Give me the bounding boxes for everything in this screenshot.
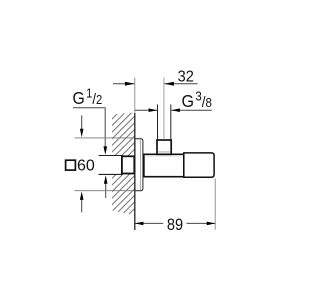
dim 60: top arrow <box>81 115 83 130</box>
pipe G3/8 stub left line <box>157 105 159 141</box>
bushing: threaded wall connector <box>122 156 134 173</box>
nut shadow <box>158 151 171 153</box>
dimension 89: line segments <box>135 222 163 224</box>
dim 60: bottom extension line <box>75 190 135 192</box>
G1/2 up arrow below pipe <box>105 196 107 198</box>
leader G1/2: vertical with down arrow <box>104 108 106 148</box>
escutcheon plate <box>135 139 143 191</box>
dimension 32: right segment and arrow <box>164 83 197 85</box>
valve body <box>144 154 184 176</box>
extension line for 89 dim <box>214 179 216 230</box>
nut: top connection <box>157 140 171 154</box>
wall hatch <box>112 113 135 216</box>
dimension G3/8: right arrow and leader <box>172 109 212 111</box>
dimension 89: left arrow <box>135 222 144 226</box>
pipe G3/8 stub right line <box>170 105 172 141</box>
svg-text:89: 89 <box>167 216 183 234</box>
pipe G1/2 inlet top line <box>99 155 123 157</box>
centerline extension for 32 dim <box>163 78 165 140</box>
outlet <box>184 153 214 177</box>
label G3/8 <box>182 89 213 111</box>
label G1/2 <box>73 86 103 108</box>
pipe G1/2 inlet bottom line <box>99 173 123 175</box>
svg-text:32: 32 <box>178 69 194 86</box>
dimension 32: left segment and arrow <box>113 83 134 85</box>
escutcheon highlight line <box>140 140 142 191</box>
square symbol of 60 <box>66 160 76 170</box>
node: supply pipe opening (white gap in wall) <box>99 156 124 174</box>
dim 60: bottom arrow <box>81 200 83 212</box>
dimension G3/8: left arrow <box>135 109 157 111</box>
dim 60: top extension line <box>75 137 135 139</box>
body shading line <box>145 155 184 157</box>
wire: wall face line <box>134 78 136 114</box>
leader G1/2: horizontal <box>73 107 105 109</box>
dimension 89: right arrow <box>207 222 216 226</box>
svg-text:60: 60 <box>77 157 95 174</box>
